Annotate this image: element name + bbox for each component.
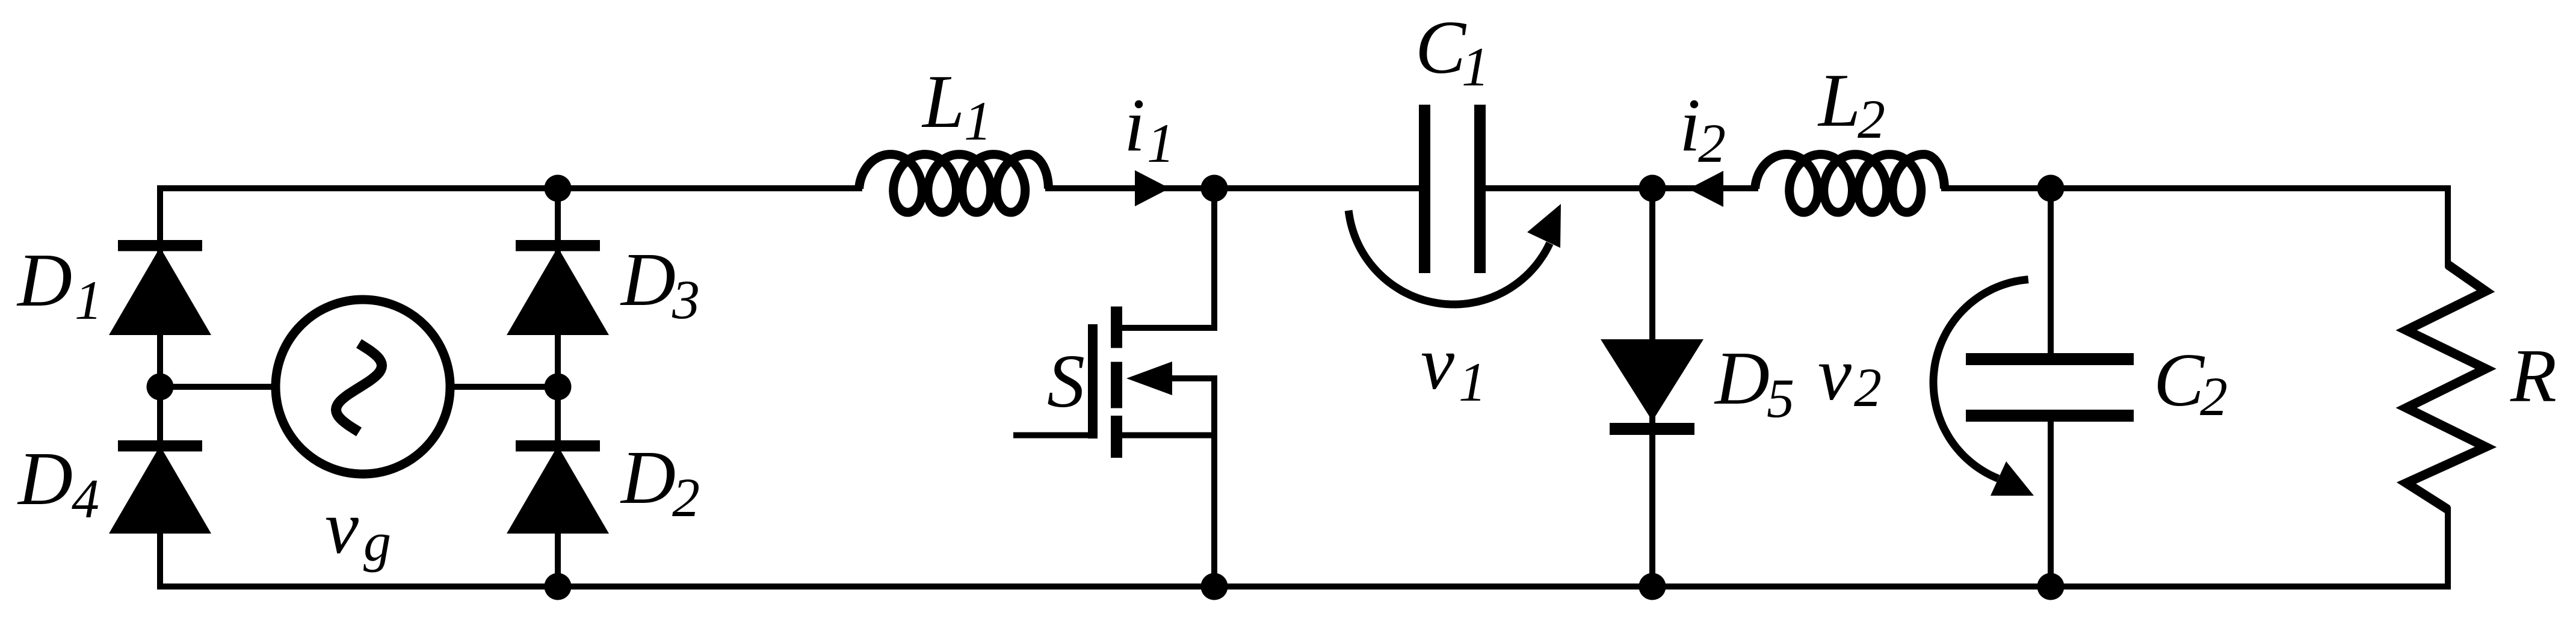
label S (switch)	[1047, 340, 1085, 423]
inductor L1	[859, 155, 1049, 212]
svg-text:v: v	[325, 486, 359, 570]
ac source vg circle	[276, 300, 450, 474]
node: L1-C1-MOSFET junction	[1201, 175, 1228, 202]
label D2	[620, 436, 700, 528]
node: bridge mid-right	[545, 374, 572, 401]
svg-text:D: D	[16, 239, 72, 322]
inductor L2	[1755, 155, 1945, 212]
svg-text:v: v	[1421, 322, 1454, 405]
node: C1-D5-L2 junction	[1639, 175, 1666, 202]
svg-text:1: 1	[1462, 36, 1489, 97]
wire: MOSFET source horizontal	[1119, 433, 1214, 439]
wire: rectifier mid-left (node A to source)	[160, 384, 278, 390]
node: D5 bottom	[1639, 573, 1666, 600]
diode D4	[109, 440, 211, 534]
node: L2-C2 junction	[2037, 175, 2065, 202]
label D3	[620, 238, 700, 330]
diode D5	[1601, 339, 1703, 435]
wire: C2 branch lower	[2048, 421, 2054, 587]
node: bridge bottom	[545, 573, 572, 600]
label C1	[1415, 6, 1489, 97]
wire: MOSFET source lead to bottom rail	[1211, 378, 1217, 587]
label vg	[325, 486, 391, 573]
svg-text:2: 2	[2200, 366, 2228, 427]
svg-text:R: R	[2510, 334, 2557, 418]
MOSFET S (switch)	[1088, 307, 1172, 458]
svg-text:2: 2	[672, 467, 700, 528]
svg-text:3: 3	[672, 269, 700, 330]
label i1	[1124, 84, 1175, 174]
wire: D5 branch	[1649, 188, 1655, 587]
current arrow i1	[1135, 170, 1170, 206]
wire: top rail, rectifier to L1	[160, 188, 859, 587]
wire: bottom rail	[160, 510, 2448, 587]
current arrow i2	[1688, 171, 1723, 207]
svg-text:L: L	[921, 60, 965, 144]
svg-text:1: 1	[964, 90, 992, 152]
svg-text:4: 4	[72, 468, 99, 529]
v2 polarity arc arrow	[1933, 280, 2034, 496]
ac source sine squiggle	[336, 343, 382, 432]
capacitor C2 plates	[1966, 353, 2134, 422]
label C2	[2154, 339, 2228, 427]
svg-text:L: L	[1817, 59, 1861, 143]
label D5	[1714, 337, 1794, 429]
svg-text:D: D	[17, 437, 73, 521]
wire: MOSFET gate lead	[1016, 433, 1090, 439]
svg-text:1: 1	[75, 269, 102, 331]
diode D3	[507, 240, 609, 335]
wire: C2 branch upper	[2048, 188, 2054, 355]
label i2	[1679, 84, 1726, 174]
svg-text:D: D	[620, 238, 676, 322]
wire: top rail, L1 to C1 left plate	[1048, 185, 1420, 191]
wire: rectifier mid-right (source to node B)	[448, 384, 558, 390]
diode D1	[109, 240, 211, 335]
svg-text:2: 2	[1854, 357, 1882, 418]
wire: top rail, C1 right plate to L2	[1484, 185, 1755, 191]
svg-text:v: v	[1818, 333, 1852, 416]
svg-text:1: 1	[1147, 112, 1175, 174]
svg-text:2: 2	[1858, 88, 1885, 150]
svg-text:C: C	[2154, 339, 2205, 422]
label v1	[1421, 322, 1486, 413]
node: bridge mid-left	[147, 374, 174, 401]
svg-text:C: C	[1415, 6, 1467, 90]
label D4	[17, 437, 99, 529]
svg-text:i: i	[1124, 84, 1145, 167]
node: bridge top / D3 cathode	[545, 175, 572, 202]
svg-text:D: D	[620, 436, 676, 520]
node: C2 bottom	[2037, 573, 2065, 600]
capacitor C1 plates	[1419, 105, 1486, 273]
node: MOSFET source bottom	[1201, 573, 1228, 600]
diode D2	[507, 440, 609, 534]
resistor R zigzag	[2406, 265, 2486, 510]
label R (load)	[2510, 334, 2557, 418]
svg-text:i: i	[1679, 84, 1700, 167]
wire: top rail, L2 to top-right corner	[1944, 188, 2448, 265]
v1 polarity arc arrow	[1348, 204, 1561, 304]
svg-text:D: D	[1714, 337, 1770, 420]
wire: MOSFET drain lead	[1119, 188, 1214, 328]
svg-text:S: S	[1047, 340, 1085, 423]
svg-text:2: 2	[1698, 112, 1726, 174]
label L2	[1817, 59, 1885, 150]
wire: bridge leg D3/D2	[555, 188, 561, 587]
svg-text:5: 5	[1767, 368, 1794, 429]
label D1	[16, 239, 102, 331]
svg-text:1: 1	[1459, 351, 1486, 413]
wire: MOSFET body connection	[1143, 375, 1214, 381]
label L1	[921, 60, 992, 152]
svg-text:g: g	[363, 511, 391, 573]
label v2	[1818, 333, 1882, 418]
